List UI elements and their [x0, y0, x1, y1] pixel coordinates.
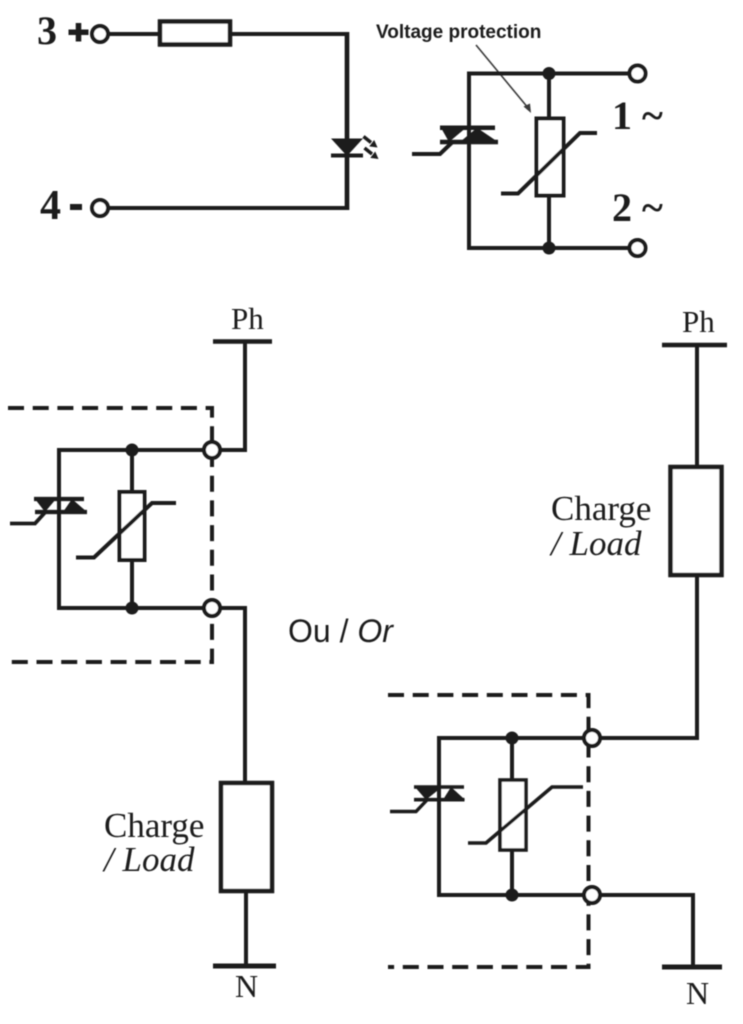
svg-text:Ph: Ph [231, 301, 264, 336]
svg-text:1 ~: 1 ~ [612, 93, 663, 138]
svg-text:N: N [686, 975, 709, 1011]
svg-text:Charge: Charge [551, 489, 651, 528]
svg-text:Voltage protection: Voltage protection [376, 22, 541, 43]
svg-text:Ph: Ph [682, 304, 715, 339]
svg-text:2 ~: 2 ~ [612, 185, 663, 230]
svg-text:/ Load: / Load [102, 840, 195, 879]
svg-text:N: N [235, 968, 258, 1004]
svg-text:3: 3 [37, 8, 57, 53]
svg-text:4: 4 [40, 183, 61, 229]
svg-text:/ Load: / Load [549, 524, 642, 563]
svg-text:Ou / Or: Ou / Or [288, 613, 394, 649]
